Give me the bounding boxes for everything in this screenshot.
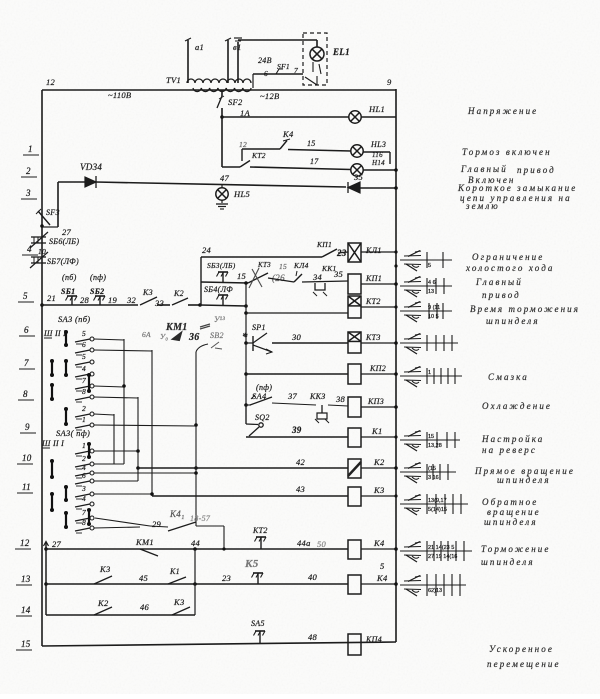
selector SA3-пб contact 5: [75, 339, 90, 342]
svg-text:7: 7: [24, 358, 29, 368]
svg-text:SБ6(ЛБ): SБ6(ЛБ): [49, 237, 79, 246]
svg-text:13(9,17: 13(9,17: [428, 498, 447, 504]
wire SF3 to node 27: [42, 226, 58, 228]
wire SA3-пб 8 to riser: [94, 397, 138, 398]
wire rung 30: [272, 342, 348, 344]
svg-text:32: 32: [126, 295, 137, 305]
svg-text:10 5: 10 5: [428, 314, 439, 320]
svg-text:К5: К5: [244, 558, 259, 570]
wire mid rung KP1: [268, 278, 294, 282]
svg-text:12: 12: [20, 538, 30, 548]
breaker SF3: [38, 211, 50, 225]
svg-text:шпинделя: шпинделя: [497, 475, 551, 485]
svg-text:К4: К4: [376, 573, 388, 583]
svg-text:6: 6: [264, 69, 268, 78]
svg-text:44а: 44а: [297, 538, 311, 548]
wire SA3-пб 7 to riser: [94, 386, 124, 387]
button SB2: [99, 296, 101, 305]
svg-text:6: 6: [82, 471, 86, 480]
svg-text:КП3: КП3: [367, 397, 384, 406]
selector SA3-пф contact 6: [75, 481, 90, 484]
svg-text:8: 8: [82, 518, 86, 527]
coil K2: [348, 459, 361, 478]
lamp HL5: [216, 188, 228, 200]
svg-text:14: 14: [21, 605, 31, 615]
svg-text:К3: К3: [99, 564, 111, 574]
coil KT2: [348, 296, 361, 318]
wire row12 rung: [44, 547, 48, 551]
svg-text:43: 43: [296, 484, 305, 494]
button SB1: [71, 296, 73, 305]
svg-text:КП2: КП2: [369, 364, 386, 373]
wire rung 42: [138, 467, 348, 469]
wire to KK1: [302, 281, 348, 282]
svg-text:12: 12: [239, 140, 247, 149]
wire rung KP2: [244, 372, 248, 376]
button SB4: [222, 295, 224, 305]
svg-text:землю: землю: [465, 201, 500, 211]
wire KT3 to bus: [361, 342, 396, 344]
contact K1 row13: [168, 577, 186, 584]
wire rung 24: [201, 256, 322, 258]
svg-text:27 19 14(16: 27 19 14(16: [428, 554, 457, 560]
svg-text:35: 35: [353, 172, 363, 182]
wire SA3-пф 2 to riser: [94, 463, 124, 465]
svg-text:SF1: SF1: [277, 62, 290, 71]
button SB3: [222, 272, 224, 282]
svg-text:15: 15: [279, 262, 287, 271]
svg-text:ЕL1: ЕL1: [332, 47, 350, 57]
coil KP4: [348, 634, 361, 655]
svg-text:Обратное: Обратное: [482, 497, 538, 507]
svg-text:33: 33: [154, 298, 164, 308]
wire riser x138: [137, 397, 139, 481]
wire row5 rung: [40, 303, 44, 307]
svg-text:Тормоз включен: Тормоз включен: [462, 147, 552, 157]
svg-text:5: 5: [23, 291, 28, 301]
svg-text:4: 4: [82, 494, 86, 503]
coil K1: [348, 428, 361, 447]
svg-text:SQ2: SQ2: [255, 413, 270, 422]
svg-text:9: 9: [25, 422, 30, 432]
switch SF2: [221, 90, 223, 96]
contact K2 row14: [94, 607, 112, 615]
svg-text:4: 4: [27, 244, 32, 254]
selector SA3-пб contact 2: [75, 414, 90, 417]
wire K4 to bus: [361, 548, 396, 550]
wire riser rows12-14: [194, 549, 196, 615]
svg-text:К3: К3: [142, 288, 153, 297]
cross-ref КП2 NC contact symbol: [404, 379, 421, 382]
cross-ref КЛ1 NC contact symbol: [404, 263, 421, 266]
cross-ref К1 NC contact symbol: [404, 443, 421, 446]
wire K3 to bus: [361, 495, 396, 497]
svg-text:НL5: НL5: [233, 189, 250, 199]
wire riser x224: [223, 526, 225, 549]
svg-text:8: 8: [23, 389, 28, 399]
cross-ref К3 usage table: [400, 503, 468, 505]
svg-text:холостого хода: холостого хода: [465, 263, 554, 273]
wire riser x114: [113, 414, 115, 464]
contact K14: [294, 274, 302, 282]
wire SA3-пф 4 to riser: [94, 472, 196, 474]
wire rung 43: [152, 495, 348, 497]
cross-ref К4b NC contact symbol: [404, 588, 421, 591]
svg-text:У₀: У₀: [160, 332, 168, 341]
cross-ref КЛ1 NO contact symbol: [404, 255, 421, 258]
cross-ref КП2 usage table: [400, 375, 462, 377]
svg-text:62)13: 62)13: [428, 588, 442, 594]
svg-text:3: 3: [25, 188, 31, 198]
svg-text:КТ3: КТ3: [365, 333, 381, 342]
svg-text:7: 7: [294, 66, 298, 75]
svg-text:Ускоренное: Ускоренное: [489, 644, 554, 654]
svg-text:КП4: КП4: [365, 635, 382, 644]
contact K3 row13: [94, 576, 112, 584]
svg-text:КМ1: КМ1: [165, 322, 188, 333]
wire K4-2 to bus: [361, 583, 396, 585]
svg-text:КЛ4: КЛ4: [293, 261, 309, 270]
cam mark 2: [88, 444, 90, 457]
svg-text:39: 39: [291, 425, 302, 435]
selector SA3-пб contact 6: [75, 350, 90, 353]
svg-text:SА3 (пб): SА3 (пб): [58, 314, 90, 324]
wire KK3 to coil: [328, 405, 348, 406]
wire EL1 lamp drop: [316, 40, 318, 47]
contact KT2 (lamp rung): [222, 166, 240, 168]
svg-text:6: 6: [82, 340, 86, 349]
cross-ref К3 NC contact symbol: [404, 507, 421, 510]
svg-text:37: 37: [287, 391, 298, 401]
svg-text:1: 1: [82, 441, 86, 450]
cross-ref КТ3 NO contact symbol: [404, 338, 421, 341]
selector SA3-пб contact 5: [75, 362, 90, 365]
selector SA3-пф contact 3: [75, 494, 90, 497]
lamp HL3: [351, 145, 363, 157]
svg-text:5: 5: [428, 263, 431, 269]
fuse SF1 wire: [253, 73, 303, 75]
wire rung29 to riser x224: [196, 525, 224, 527]
wire riser x124: [123, 339, 125, 464]
svg-text:5: 5: [82, 329, 86, 338]
svg-text:35: 35: [333, 269, 343, 279]
wire riser x196: [195, 352, 197, 526]
svg-text:1: 1: [28, 144, 33, 154]
svg-text:40: 40: [308, 572, 318, 582]
svg-text:К4₁: К4₁: [169, 509, 185, 519]
diode 35: [348, 182, 360, 193]
svg-text:9 (11: 9 (11: [428, 305, 440, 311]
svg-text:27: 27: [62, 227, 72, 237]
svg-text:Ш II I: Ш II I: [43, 329, 66, 338]
top bus wire 12 (~110V): [42, 89, 396, 91]
wire KT2 to bus: [361, 306, 396, 308]
svg-text:13,28: 13,28: [428, 443, 442, 449]
selector SA3-пф contact 4: [75, 504, 90, 507]
thermal contact KK1: [315, 283, 325, 290]
selector SA3-пб contact 7: [75, 386, 90, 389]
svg-text:1: 1: [428, 370, 431, 376]
lamp EL1 enclosure (dashed): [303, 33, 327, 85]
svg-text:~110В: ~110В: [108, 90, 131, 100]
wire rung 39: [246, 436, 348, 438]
svg-text:КП1: КП1: [316, 240, 332, 249]
wire vertical from VD34 to SF3 node: [57, 182, 59, 227]
cross-ref КТ3 NC contact symbol: [404, 346, 421, 349]
svg-text:К2: К2: [173, 289, 184, 298]
svg-text:К2: К2: [97, 598, 109, 608]
svg-text:К2: К2: [373, 457, 385, 467]
svg-text:24В: 24В: [258, 56, 272, 65]
svg-text:2: 2: [82, 404, 86, 413]
wire HL3 elbow: [363, 151, 390, 153]
svg-text:28: 28: [80, 295, 90, 305]
cross-ref КТ2 NO contact symbol: [404, 306, 421, 309]
cross-ref К3 NO contact symbol: [404, 499, 421, 502]
coil KP3: [348, 397, 361, 417]
svg-text:23: 23: [222, 573, 231, 583]
svg-text:Напряжение: Напряжение: [467, 106, 538, 116]
cross-ref КП1 usage table: [400, 285, 452, 287]
cross-ref КП1 NC contact symbol: [404, 289, 421, 292]
cross-ref К1 NO contact symbol: [404, 435, 421, 438]
svg-text:К3: К3: [173, 597, 185, 607]
transformer TV1 primary lead a1: [187, 40, 189, 83]
wire SA3-пф 1 to riser: [94, 450, 138, 452]
svg-text:Главный: Главный: [475, 277, 523, 287]
switch SB6 (ЛБ): [31, 236, 46, 238]
cross-ref К4 NC contact symbol: [404, 554, 421, 557]
selector SA3-пф contact 7: [75, 518, 90, 521]
svg-text:45: 45: [139, 573, 148, 583]
wire SA3-пб 5 to riser: [94, 339, 124, 340]
svg-text:КТ2: КТ2: [252, 526, 268, 535]
svg-text:27: 27: [52, 539, 62, 549]
wire 15 to HL3: [288, 150, 351, 152]
wire rung KT2 coil: [244, 311, 248, 315]
svg-text:5(14)15: 5(14)15: [428, 507, 447, 513]
wire HL1 to bus: [361, 116, 396, 118]
svg-text:на реверс: на реверс: [482, 445, 537, 455]
svg-text:Ограничение: Ограничение: [472, 252, 544, 262]
contact KB row13: [257, 573, 259, 584]
svg-text:Смазка: Смазка: [488, 372, 529, 382]
cross-ref К2 usage table: [400, 471, 456, 473]
cross-ref К2 NO contact symbol: [404, 467, 421, 470]
svg-text:КМ1: КМ1: [135, 537, 154, 547]
svg-text:9: 9: [387, 77, 392, 87]
svg-text:13: 13: [428, 289, 434, 295]
wire 37: [272, 403, 316, 405]
cross-ref К4 NO contact symbol: [404, 546, 421, 549]
contact KP1 (rung24): [322, 249, 337, 257]
coil KL1: [348, 243, 361, 262]
selector SA3-пб contact 1: [75, 425, 90, 428]
wire rung KP1: [201, 282, 248, 283]
svg-text:шпинделя: шпинделя: [481, 557, 535, 567]
lamp EL1: [310, 47, 324, 61]
wire 47 rung: [96, 182, 346, 187]
wire K1 to bus: [361, 436, 396, 438]
coil KT3: [348, 332, 361, 353]
cross-ref К4b usage table: [400, 584, 466, 586]
wire row15 rung: [42, 642, 396, 646]
transformer TV1 primary winding: [187, 79, 251, 83]
svg-text:К1: К1: [169, 567, 180, 576]
wire SA3-пб 2 to riser: [94, 414, 114, 415]
wire SA3-пб 1 to riser: [94, 425, 196, 426]
lamp H14: [351, 164, 363, 176]
lamp HL1: [349, 111, 361, 123]
contact KM1: [140, 549, 158, 556]
coil KP1: [348, 274, 361, 294]
svg-text:SБ3(ЛБ): SБ3(ЛБ): [207, 261, 236, 270]
svg-text:2: 2: [82, 454, 86, 463]
svg-text:15: 15: [237, 271, 246, 281]
svg-text:48: 48: [308, 632, 318, 642]
svg-text:КТ2: КТ2: [251, 151, 266, 160]
thermal contact KK3: [321, 405, 323, 413]
coil K4-2: [348, 575, 361, 594]
svg-text:Ш II I: Ш II I: [41, 439, 64, 448]
svg-text:1: 1: [82, 415, 86, 424]
svg-text:перемещение: перемещение: [487, 659, 561, 669]
selector SA3-пб contact 8: [75, 397, 90, 400]
svg-text:19: 19: [108, 295, 118, 305]
svg-text:11: 11: [22, 482, 31, 492]
bus junction dot KL1: [394, 264, 397, 267]
lamp HL5 drop: [221, 185, 223, 188]
contact SA4: [244, 403, 248, 407]
svg-text:36: 36: [188, 332, 200, 343]
svg-text:Н14: Н14: [371, 159, 385, 167]
svg-text:К4: К4: [282, 129, 294, 139]
svg-text:15: 15: [428, 434, 434, 440]
svg-text:(15: (15: [428, 466, 436, 472]
diode VD34: [58, 181, 85, 183]
contact K4 lamp rung: [242, 148, 280, 150]
coil K4: [348, 540, 361, 559]
lamp EL1 lower element: [312, 62, 314, 72]
svg-text:15: 15: [307, 139, 316, 148]
svg-text:SБ7(ЛФ): SБ7(ЛФ): [47, 257, 79, 266]
svg-text:34: 34: [312, 272, 323, 282]
contact K3b row14: [172, 607, 190, 615]
wire stub rows 12-14: [45, 542, 47, 615]
svg-text:12: 12: [46, 77, 56, 87]
wire branch KT2 riser: [241, 149, 243, 161]
svg-text:7: 7: [82, 376, 86, 385]
svg-text:КП1: КП1: [365, 274, 382, 283]
wire SF2 down: [221, 108, 223, 167]
svg-text:10: 10: [22, 453, 32, 463]
svg-text:*: *: [242, 331, 248, 343]
button SA5: [259, 631, 261, 644]
svg-text:8: 8: [82, 387, 86, 396]
svg-text:шпинделя: шпинделя: [486, 316, 540, 326]
transformer TV1 primary lead b1: [227, 40, 229, 83]
svg-text:(26: (26: [272, 273, 285, 283]
svg-text:24: 24: [202, 245, 212, 255]
wire row14 rung: [46, 614, 195, 616]
svg-text:Охлаждение: Охлаждение: [482, 401, 552, 411]
svg-text:К3: К3: [373, 485, 385, 495]
wire KL1 to bus: [361, 251, 396, 253]
svg-text:ТV1: ТV1: [166, 75, 181, 85]
selector SA3-пб contact 4: [75, 374, 90, 377]
wire secondary tap to EL1 top: [237, 42, 239, 83]
svg-text:ККЗ: ККЗ: [309, 392, 326, 401]
svg-text:SБ4(ЛФ: SБ4(ЛФ: [204, 285, 233, 294]
svg-text:Главный: Главный: [460, 164, 508, 174]
svg-text:SБ1: SБ1: [61, 287, 75, 296]
svg-text:К1: К1: [371, 426, 383, 436]
svg-text:SВ2: SВ2: [210, 331, 224, 340]
selector SA3-пф contact 4: [75, 473, 90, 476]
svg-text:13: 13: [21, 574, 31, 584]
wire riser x245: [245, 283, 247, 424]
svg-text:5: 5: [380, 561, 385, 571]
svg-text:привод: привод: [482, 290, 521, 300]
wire row13 rung: [44, 582, 48, 586]
svg-text:Торможение: Торможение: [481, 544, 550, 554]
svg-text:SF2: SF2: [228, 97, 243, 107]
wire SA3-пф 8 stub: [94, 527, 140, 528]
wire row5 to SB4: [198, 303, 202, 307]
svg-text:47: 47: [220, 173, 230, 183]
switch SB7 (ЛФ): [31, 256, 46, 258]
wire K2 to bus: [361, 467, 396, 469]
wire diode 35 to bus: [360, 187, 396, 189]
svg-text:(пф): (пф): [90, 273, 106, 282]
cross-ref КТ2 NC contact symbol: [404, 314, 421, 317]
svg-text:VD34: VD34: [80, 162, 102, 172]
svg-text:6: 6: [24, 325, 29, 335]
svg-text:4: 4: [82, 364, 86, 373]
wire riser x152: [151, 350, 153, 496]
svg-text:а1: а1: [195, 42, 204, 52]
svg-text:SF3: SF3: [46, 208, 60, 217]
wire KP2 to bus: [361, 373, 396, 375]
cross-ref К1 usage table: [400, 439, 460, 441]
svg-text:7: 7: [82, 508, 86, 517]
wire SA3-пф 6 to riser: [94, 480, 138, 482]
svg-text:Настройка: Настройка: [481, 434, 544, 444]
svg-text:44: 44: [191, 538, 201, 548]
svg-text:15: 15: [21, 639, 31, 649]
svg-text:привод: привод: [517, 165, 556, 175]
svg-text:21: 21: [47, 293, 56, 303]
wire to KL1 coil: [338, 252, 348, 253]
contact K2 row5: [172, 298, 188, 305]
selector SA3-пф contact 8: [75, 528, 90, 531]
wire H14 to bus: [363, 169, 396, 171]
svg-text:шпинделя: шпинделя: [484, 517, 538, 527]
cam mark 1: [65, 332, 67, 345]
contact K4 rung29: [95, 518, 150, 526]
svg-text:29: 29: [152, 519, 162, 529]
svg-text:5: 5: [82, 352, 86, 361]
svg-text:3 16: 3 16: [428, 475, 439, 481]
svg-text:К4: К4: [373, 538, 385, 548]
contact SP1: [244, 341, 248, 345]
svg-text:КТ2: КТ2: [365, 297, 381, 306]
timer contact KT2 row12: [260, 537, 262, 549]
wire secondary right lead: [252, 74, 254, 88]
cross-ref К2 NC contact symbol: [404, 475, 421, 478]
svg-text:50: 50: [317, 539, 327, 549]
svg-text:КЛ1: КЛ1: [365, 246, 382, 255]
